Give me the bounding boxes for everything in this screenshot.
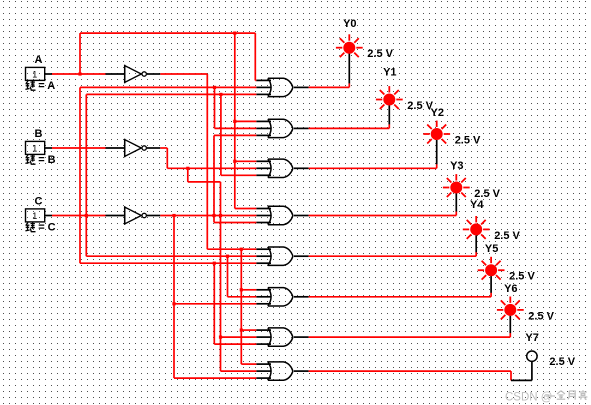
svg-text:Y2: Y2 xyxy=(431,107,444,119)
wire net A' from inverter U1 output xyxy=(160,73,207,75)
svg-text:= B: = B xyxy=(38,154,55,166)
wire output Y0 riser (red tail) xyxy=(348,83,350,87)
junction net A top channel xyxy=(233,32,236,35)
wire net B drop to G7 bottom xyxy=(214,263,256,344)
svg-text:B: B xyxy=(35,128,43,140)
wire net A' vertical x=207.3 xyxy=(206,74,208,249)
wire net B' feed G8 middle xyxy=(221,370,257,372)
LED probe X4 (output Y3, lit) xyxy=(443,174,470,197)
junction net A on row A xyxy=(78,72,81,75)
svg-text:2.5 V: 2.5 V xyxy=(494,230,520,242)
wire output Y2 riser (red tail) xyxy=(436,164,438,168)
pin stub switch B xyxy=(45,147,52,149)
or-gate U9 (3-input, output Y5) xyxy=(256,288,308,306)
wire net B' feed G7 middle xyxy=(221,336,257,338)
key caption 键 = B xyxy=(25,154,55,166)
svg-text:Y7: Y7 xyxy=(525,332,538,344)
svg-text:2.5 V: 2.5 V xyxy=(455,135,481,147)
wire output Y4 riser (red tail) xyxy=(475,252,477,256)
junction net C at G5 middle xyxy=(226,255,229,258)
wire B row xyxy=(52,147,106,149)
wire net B' from inverter U2 output xyxy=(160,148,256,168)
wire output Y2 horizontal xyxy=(309,167,437,169)
svg-text:2.5 V: 2.5 V xyxy=(549,356,575,368)
svg-text:1: 1 xyxy=(32,70,37,80)
junction net C on row C xyxy=(85,214,88,217)
inverter U3 (NOT gate) xyxy=(125,206,147,224)
wire output Y1 riser (red tail) xyxy=(388,124,390,128)
junction net A at G2 top xyxy=(233,120,236,123)
pin lead probe Y7 xyxy=(531,361,533,380)
svg-text:Y1: Y1 xyxy=(383,67,396,79)
wire net A' vertical bus x=241.3 xyxy=(240,249,242,364)
pin lead LED Y3 xyxy=(455,193,457,211)
wire output Y4 horizontal xyxy=(309,255,477,257)
junction net B at G1 middle xyxy=(213,86,216,89)
inverter U2 (NOT gate) xyxy=(125,139,147,157)
or-gate U4 (3-input, output Y0) xyxy=(256,78,308,96)
LED probe X7 (output Y6, lit) xyxy=(497,297,524,320)
svg-text:Y4: Y4 xyxy=(470,199,484,211)
wire net A: drop to G1 top input xyxy=(254,33,257,80)
junction net C' at G6 bottom xyxy=(172,302,175,305)
wire net B vertical x=80 xyxy=(79,87,81,263)
wire net C' row to G4 middle xyxy=(160,215,256,217)
wire net B feed G1 middle xyxy=(80,86,256,88)
pin stub inverter U2 output xyxy=(147,147,160,149)
junction net A' at G7 top xyxy=(240,329,243,332)
pin lead LED Y4 xyxy=(475,235,477,252)
or-gate U6 (3-input, output Y2) xyxy=(256,159,308,177)
wire output Y3 riser (red tail) xyxy=(455,211,457,215)
wire net C feed G5 middle xyxy=(86,255,256,257)
pin stub switch C xyxy=(45,215,52,217)
pin stub switch A xyxy=(45,73,52,75)
LED probe X5 (output Y4, lit) xyxy=(463,216,490,239)
wire output Y7 horizontal xyxy=(309,370,511,372)
svg-text:Y3: Y3 xyxy=(450,160,463,172)
or-gate U8 (3-input, output Y4) xyxy=(256,247,308,265)
wire output Y7 bottom run (black) xyxy=(511,379,532,381)
key switch J1 (A) xyxy=(26,67,45,80)
probe X8 (output Y7, unlit) xyxy=(527,351,537,361)
key switch J2 (B) xyxy=(26,141,45,154)
junction net C' x=220.5 on row xyxy=(219,214,222,217)
wire net A: feed G3 top xyxy=(235,160,256,162)
watermark CSDN @一金月亮 xyxy=(505,390,587,403)
junction net B' on G3 middle wire xyxy=(186,167,189,170)
wire net A: feed G2 top xyxy=(235,120,256,122)
wire net B' jog down xyxy=(188,168,221,182)
wire output Y1 horizontal xyxy=(309,127,390,129)
inverter U1 (NOT gate) xyxy=(125,65,147,83)
svg-text:2.5 V: 2.5 V xyxy=(367,48,393,60)
wire net B feed G5 bottom xyxy=(80,262,256,264)
pin lead LED Y0 xyxy=(348,54,350,84)
LED probe X2 (output Y1, lit) xyxy=(376,86,403,109)
key caption 键 = A xyxy=(25,80,55,92)
svg-text:1: 1 xyxy=(32,211,37,221)
junction net A' at G6 top xyxy=(240,288,243,291)
pin lead LED Y1 xyxy=(388,105,390,124)
LED probe X3 (output Y2, lit) xyxy=(423,121,450,144)
wire net A: feed G4 top xyxy=(235,208,256,210)
wire net A' feed G7 top xyxy=(241,329,256,331)
wire net A' feed G8 top xyxy=(241,363,256,365)
pin lead LED Y6 xyxy=(509,316,511,333)
key switch J3 (C) xyxy=(26,209,45,222)
wire A row xyxy=(52,73,106,75)
or-gate U5 (3-input, output Y1) xyxy=(256,119,308,137)
svg-text:2.5 V: 2.5 V xyxy=(528,310,554,322)
wire net A' feed G6 top xyxy=(241,289,256,291)
svg-text:Y6: Y6 xyxy=(504,283,517,295)
or-gate U7 (3-input, output Y3) xyxy=(256,206,308,224)
junction net C' x=214 on row xyxy=(212,214,215,217)
or-gate U10 (3-input, output Y6) xyxy=(256,328,308,346)
junction net B' at G7 middle xyxy=(219,336,222,339)
svg-text:C: C xyxy=(35,195,43,207)
pin lead LED Y5 xyxy=(490,276,492,293)
wire net C feed G1 bottom xyxy=(86,93,256,95)
wire net A: vertical bus x=234.8 xyxy=(234,33,236,208)
svg-text:CSDN @: CSDN @ xyxy=(505,392,552,404)
wire net C drop to G3 bottom xyxy=(221,94,256,175)
svg-text:1: 1 xyxy=(32,144,37,154)
svg-text:Y0: Y0 xyxy=(343,18,356,30)
pin stub inverter U2 input xyxy=(106,147,125,149)
wire output Y6 riser (red tail) xyxy=(509,333,511,337)
wire output Y3 horizontal xyxy=(309,215,457,217)
svg-text:Y5: Y5 xyxy=(485,243,498,255)
svg-text:A: A xyxy=(35,54,43,66)
svg-text:2.5 V: 2.5 V xyxy=(509,271,535,283)
or-gate U11 (3-input, output Y7) xyxy=(256,362,308,380)
pin lead LED Y2 xyxy=(436,140,438,165)
wire net A: branch up from row A to top channel xyxy=(79,33,81,74)
wire output Y5 riser (red tail) xyxy=(490,293,492,297)
junction net B at G5 bottom xyxy=(213,262,216,265)
svg-text:= C: = C xyxy=(38,222,55,234)
wire net C drop to G6 middle xyxy=(228,256,257,297)
pin stub inverter U3 output xyxy=(147,215,160,217)
wire net C' vertical x=214.0 xyxy=(213,135,215,222)
wire net A: top channel horizontal xyxy=(80,32,255,34)
svg-text:= A: = A xyxy=(38,80,55,92)
wire net C' feed G2 bottom xyxy=(214,134,256,136)
wire output Y7 drop xyxy=(510,371,512,380)
wire net C' feed G6 bottom xyxy=(174,303,256,305)
wire net B' vertical x=220.5 xyxy=(220,182,222,371)
wire net A' feed G5 top xyxy=(207,248,256,250)
junction net A at G3 top xyxy=(233,160,236,163)
wire net C vertical x=86.3 xyxy=(85,94,87,256)
wire output Y5 horizontal xyxy=(309,296,492,298)
pin stub inverter U1 input xyxy=(106,73,125,75)
wire net C' feed G8 bottom xyxy=(174,377,256,379)
pin stub inverter U3 input xyxy=(106,215,125,217)
LED probe X1 (output Y0, lit) xyxy=(336,34,363,57)
wire net B drop to G2 middle xyxy=(215,87,257,128)
junction net C at G1 bottom xyxy=(219,93,222,96)
junction net C' x=174 on row xyxy=(172,214,175,217)
wire net C' vertical x=174.0 xyxy=(173,216,175,379)
wire output Y0 horizontal xyxy=(309,86,350,88)
wire net C' feed G4 bottom xyxy=(214,222,256,224)
LED probe X6 (output Y5, lit) xyxy=(478,257,505,280)
key caption 键 = C xyxy=(25,222,55,234)
wire output Y6 horizontal xyxy=(309,336,511,338)
wire C row xyxy=(52,215,106,217)
pin stub inverter U1 output xyxy=(147,73,160,75)
junction net A' at G5 top xyxy=(240,248,243,251)
